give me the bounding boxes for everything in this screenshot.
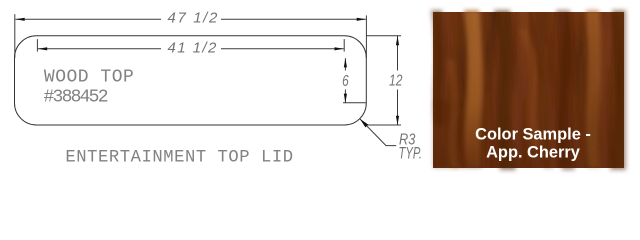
- svg-text:WOOD TOP: WOOD TOP: [44, 67, 134, 87]
- svg-text:12: 12: [389, 71, 403, 89]
- svg-text:41 1/2: 41 1/2: [168, 39, 217, 56]
- svg-text:6: 6: [342, 71, 349, 89]
- svg-text:#388452: #388452: [44, 88, 109, 108]
- svg-text:ENTERTAINMENT TOP LID: ENTERTAINMENT TOP LID: [65, 149, 293, 168]
- svg-text:47 1/2: 47 1/2: [168, 10, 218, 27]
- svg-text:Color Sample -: Color Sample -: [475, 125, 591, 143]
- svg-text:TYP.: TYP.: [399, 143, 422, 162]
- svg-text:App. Cherry: App. Cherry: [486, 143, 581, 161]
